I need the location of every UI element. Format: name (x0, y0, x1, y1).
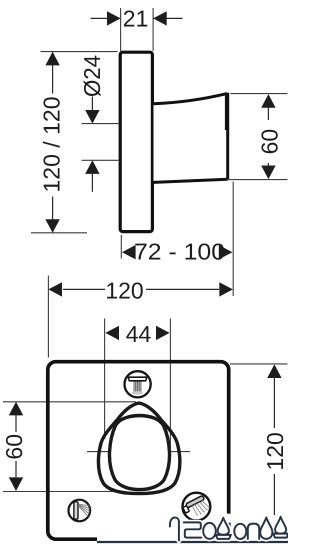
centerline tick right (170, 451, 191, 453)
svg-text:72 - 100: 72 - 100 (134, 238, 225, 264)
dim 72-100: left extension line (120, 235, 122, 259)
handle top edge (154, 94, 228, 104)
bottom-left icon circle (69, 500, 91, 522)
dim 72-100: right extension line (shared with dim 120) (232, 182, 234, 297)
left dim 60: top extension line (3, 401, 136, 403)
dim 44 arrows (105, 326, 119, 340)
extension line right of dim 21 (152, 8, 154, 51)
handle cone (side view) (154, 94, 228, 183)
watermark underline (97, 541, 288, 543)
dim Ø24 upper arrow (pointing down) (91, 97, 93, 112)
hand shower side icon (74, 502, 90, 519)
right dim 60: top extension line (231, 93, 288, 95)
svg-text:60: 60 (257, 129, 283, 155)
dim 72-100 arrows (122, 245, 136, 259)
centerline tick left (87, 451, 108, 453)
right dim 120: top extension line (230, 363, 288, 365)
bottom extension line of left dim 120/120 (31, 232, 87, 234)
svg-text:120 / 120: 120 / 120 (39, 97, 65, 193)
svg-text:Ø24: Ø24 (79, 55, 105, 97)
dim Ø24 lower arrow (pointing up) (85, 160, 99, 174)
dimension 120/120 vertical line (52, 52, 54, 93)
overhead shower icon (128, 377, 146, 395)
dim 44: left extension line (104, 319, 106, 440)
wall plate (side view) (120, 52, 152, 231)
svg-text:60: 60 (1, 434, 27, 460)
top icon circle (125, 371, 151, 397)
watermark white halo (170, 517, 288, 541)
dim 120 (horizontal): left extension line (47, 276, 49, 358)
watermark underline halo (97, 537, 288, 546)
dim 120 arrows and line (48, 282, 62, 296)
handle droplet (front view) (98, 403, 179, 494)
handle rim inner line (225, 96, 227, 131)
dimension 21 leader right (154, 17, 183, 19)
handle right edge (226, 93, 229, 180)
left dim 60: bottom extension line (3, 491, 122, 493)
hand shower diagonal icon (183, 495, 210, 515)
Ø24 upper extension line (82, 123, 119, 125)
top extension line of left dim 120/120 (41, 51, 118, 53)
svg-text:120: 120 (262, 432, 288, 470)
right dim 60: bottom extension line (226, 179, 288, 181)
svg-text:21: 21 (123, 6, 149, 32)
svg-text:44: 44 (126, 321, 152, 347)
handle rounded-square grip (front view) (109, 416, 169, 490)
watermark ink (170, 517, 288, 541)
Ø24 lower extension line (82, 159, 119, 161)
escutcheon plate (front view) (48, 362, 229, 540)
dim 44: right extension line (169, 319, 171, 449)
bottom-right icon circle (183, 493, 211, 521)
dimension 21 leader left (91, 17, 120, 19)
left dim 60 vertical (9, 402, 23, 416)
svg-text:120: 120 (105, 277, 143, 303)
extension line left of dim 21 (120, 8, 122, 51)
right dim 60 vertical (261, 94, 275, 108)
right dim 120 vertical (267, 364, 281, 378)
handle bottom edge (154, 179, 228, 182)
watermark occlusion box (225, 514, 232, 523)
